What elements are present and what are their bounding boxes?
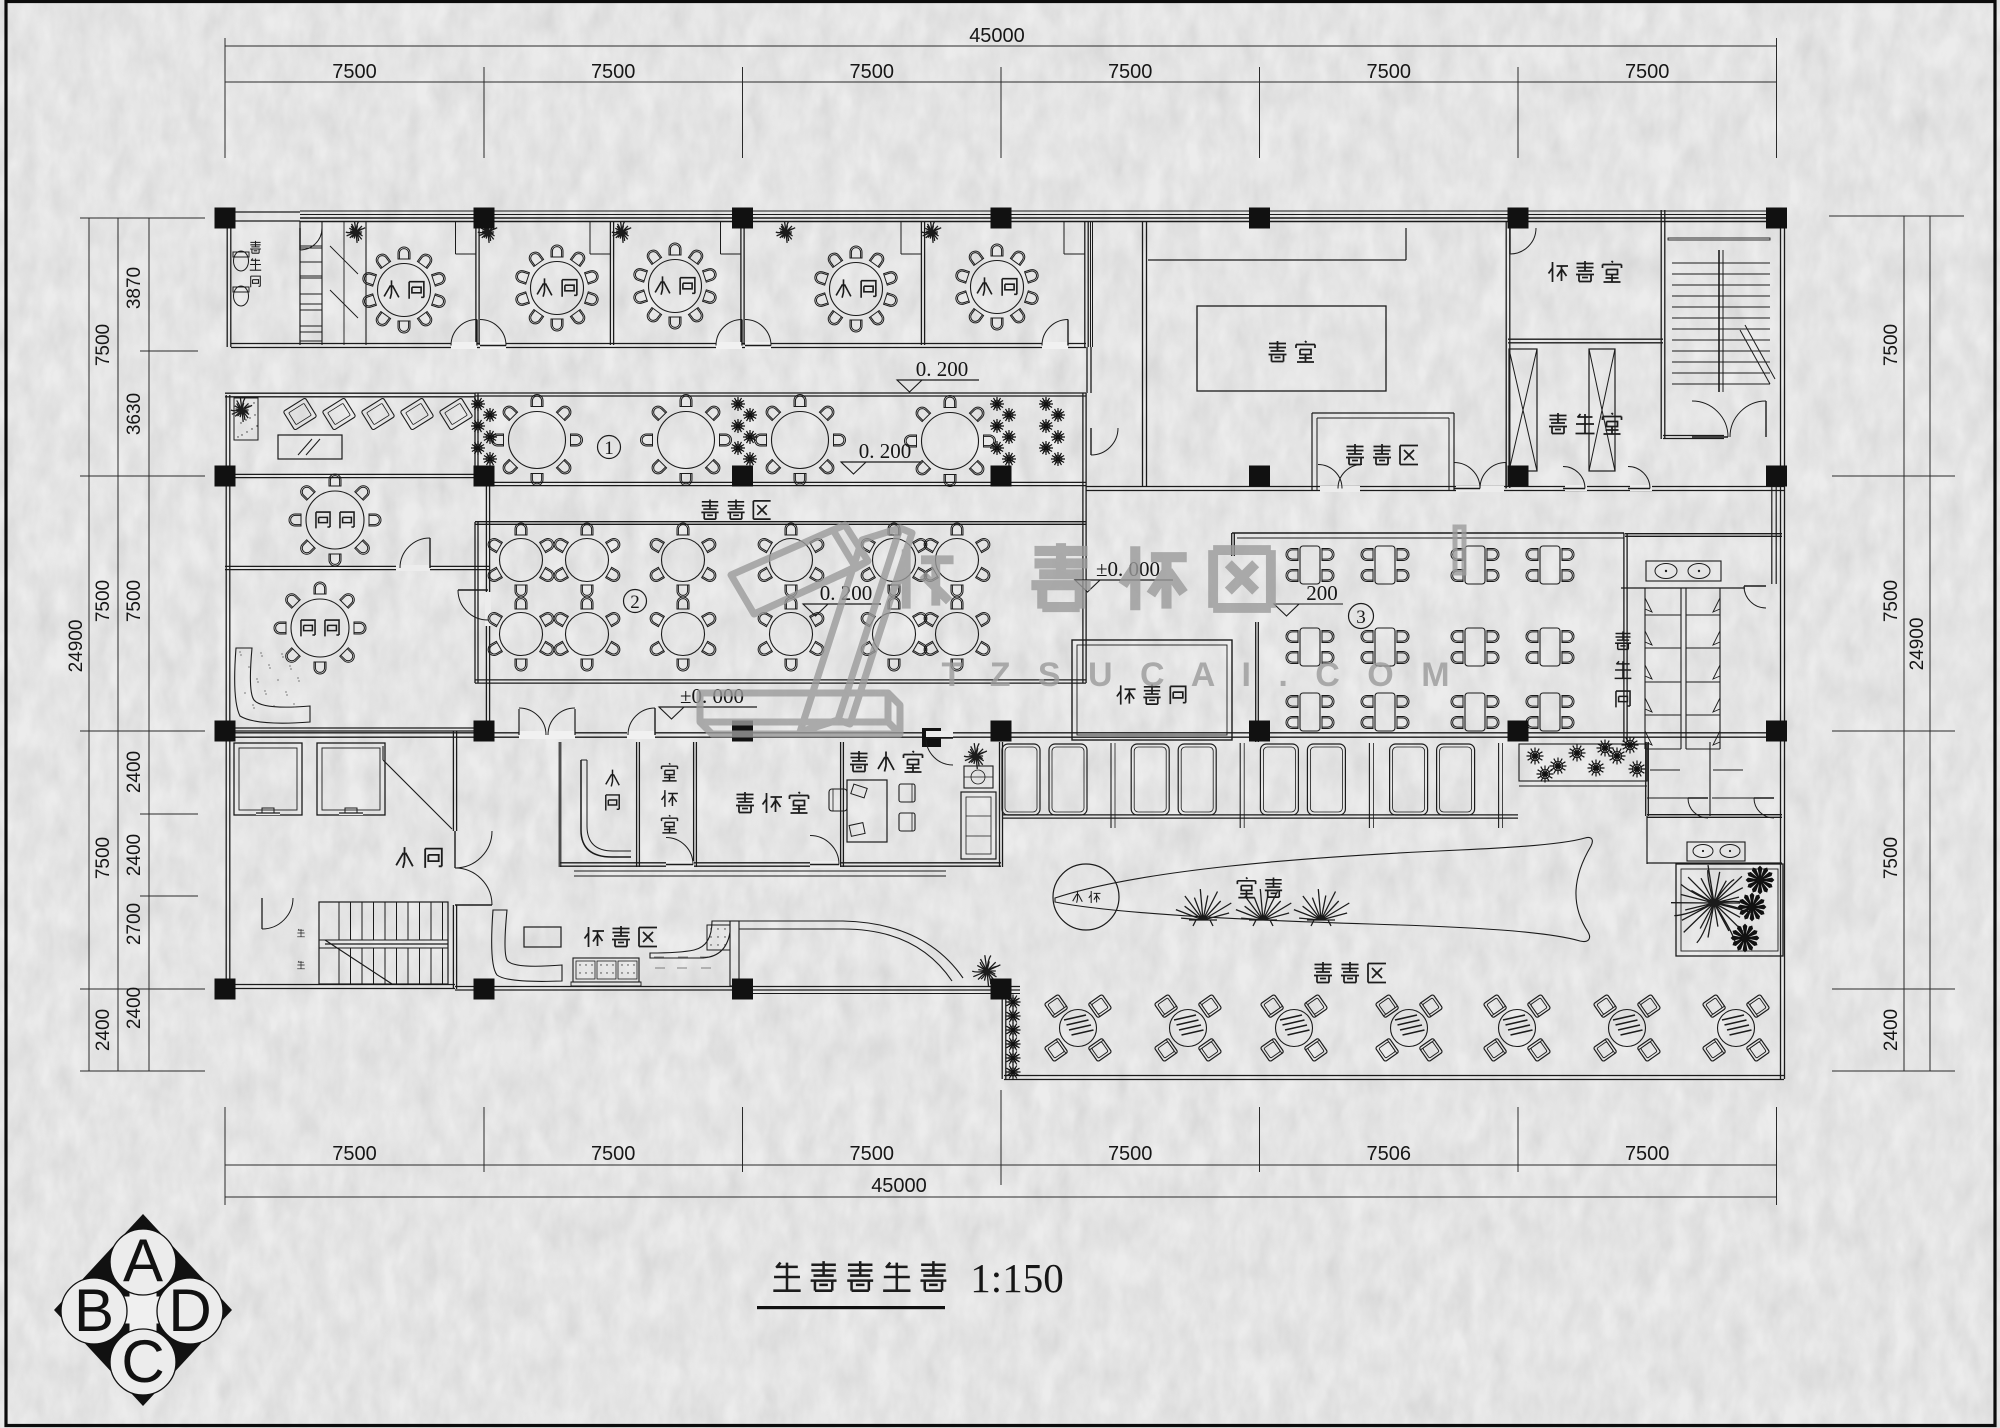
svg-text:7500: 7500 xyxy=(332,61,377,83)
svg-text:200: 200 xyxy=(1306,581,1338,605)
svg-text:7500: 7500 xyxy=(93,837,114,879)
svg-text:7500: 7500 xyxy=(1881,580,1902,622)
svg-text:24900: 24900 xyxy=(66,620,87,673)
svg-text:1:150: 1:150 xyxy=(970,1255,1063,1301)
svg-text:24900: 24900 xyxy=(1907,618,1928,671)
svg-text:7500: 7500 xyxy=(1108,61,1153,83)
svg-text:7500: 7500 xyxy=(1881,324,1902,366)
svg-text:7500: 7500 xyxy=(1881,837,1902,879)
svg-text:2: 2 xyxy=(630,592,640,613)
svg-text:7500: 7500 xyxy=(1108,1143,1153,1165)
svg-text:2400: 2400 xyxy=(93,1009,114,1051)
svg-text:A: A xyxy=(123,1227,163,1294)
svg-text:2700: 2700 xyxy=(124,903,145,945)
svg-text:2400: 2400 xyxy=(124,751,145,793)
svg-text:7500: 7500 xyxy=(591,1143,636,1165)
svg-text:7500: 7500 xyxy=(1625,1143,1670,1165)
svg-text:D: D xyxy=(168,1277,211,1344)
svg-text:3: 3 xyxy=(1356,607,1366,628)
svg-text:7500: 7500 xyxy=(124,580,145,622)
svg-text:45000: 45000 xyxy=(969,25,1025,47)
svg-text:B: B xyxy=(74,1277,114,1344)
svg-text:2400: 2400 xyxy=(1881,1009,1902,1051)
svg-text:7500: 7500 xyxy=(591,61,636,83)
svg-text:7500: 7500 xyxy=(93,324,114,366)
svg-text:C: C xyxy=(121,1328,164,1395)
svg-text:7500: 7500 xyxy=(850,61,895,83)
svg-text:2400: 2400 xyxy=(124,834,145,876)
svg-text:3870: 3870 xyxy=(124,267,145,309)
svg-text:2400: 2400 xyxy=(124,987,145,1029)
svg-text:7500: 7500 xyxy=(332,1143,377,1165)
svg-text:0. 200: 0. 200 xyxy=(916,357,969,381)
svg-text:1: 1 xyxy=(604,438,614,459)
svg-text:7506: 7506 xyxy=(1367,1143,1412,1165)
svg-text:7500: 7500 xyxy=(850,1143,895,1165)
svg-text:T Z S U C A I . C O M: T Z S U C A I . C O M xyxy=(941,656,1458,694)
svg-text:7500: 7500 xyxy=(1625,61,1670,83)
svg-text:7500: 7500 xyxy=(93,580,114,622)
svg-text:45000: 45000 xyxy=(871,1175,927,1197)
svg-text:7500: 7500 xyxy=(1367,61,1412,83)
svg-text:3630: 3630 xyxy=(124,393,145,435)
svg-text:0. 200: 0. 200 xyxy=(859,439,912,463)
